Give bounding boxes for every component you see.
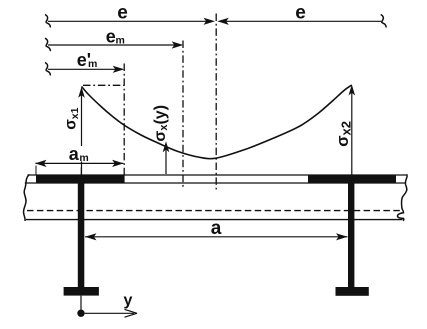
- dimension line e_m: [45, 38, 183, 51]
- left stiffener bottom flange: [64, 287, 99, 296]
- effective flange (black, right): [308, 175, 396, 184]
- plate mid dashed line: [27, 210, 401, 212]
- reference line e_m (dash-dot, x=183): [182, 41, 184, 190]
- label a_m: [67, 146, 91, 161]
- svg-text:σx(y): σx(y): [152, 105, 170, 142]
- svg-text:m: m: [116, 35, 125, 47]
- reference line e'_m (dash-dot, x=124): [123, 64, 125, 176]
- svg-text:m: m: [79, 152, 88, 164]
- right stiffener web: [348, 176, 354, 288]
- svg-text:a: a: [69, 144, 80, 164]
- effective flange (black, left a_m): [36, 175, 125, 184]
- left break (wavy edge): [24, 174, 30, 221]
- svg-text:e: e: [295, 3, 306, 24]
- plate outline bottom edge: [25, 182, 406, 184]
- plate bottom edge: [26, 219, 403, 221]
- web centerline tick: [80, 167, 82, 175]
- centerline (dash-dot, x=216): [215, 14, 217, 190]
- axis stem below left flange: [80, 296, 82, 310]
- stress curve sigma_x(y): [82, 85, 352, 159]
- right stiffener bottom flange: [336, 287, 369, 296]
- right break (wavy edge): [397, 174, 407, 221]
- svg-text:σx1: σx1: [63, 107, 81, 129]
- svg-text:e: e: [106, 27, 116, 47]
- sigma_x1 arrow: [78, 87, 85, 175]
- dimension line a: [85, 233, 348, 240]
- dimension line e (right span): [217, 15, 386, 28]
- svg-text:σx2: σx2: [334, 121, 354, 147]
- dimension line a_m: [35, 160, 124, 176]
- plate outline top edge: [28, 174, 407, 176]
- left stiffener web: [78, 176, 85, 288]
- sigma_x(y) arrow: [163, 141, 170, 174]
- svg-text:e: e: [117, 3, 128, 24]
- svg-text:m: m: [88, 58, 97, 70]
- svg-text:a: a: [211, 218, 222, 239]
- origin dot: [77, 310, 84, 317]
- sigma_x2 arrow: [349, 85, 356, 176]
- dimension line e (left span): [45, 15, 215, 28]
- svg-text:y: y: [124, 292, 133, 309]
- dimension line e'_m: [45, 63, 124, 76]
- sigma_x1 level line (horizontal dash-dot): [83, 84, 124, 86]
- y axis arrow: [85, 309, 137, 317]
